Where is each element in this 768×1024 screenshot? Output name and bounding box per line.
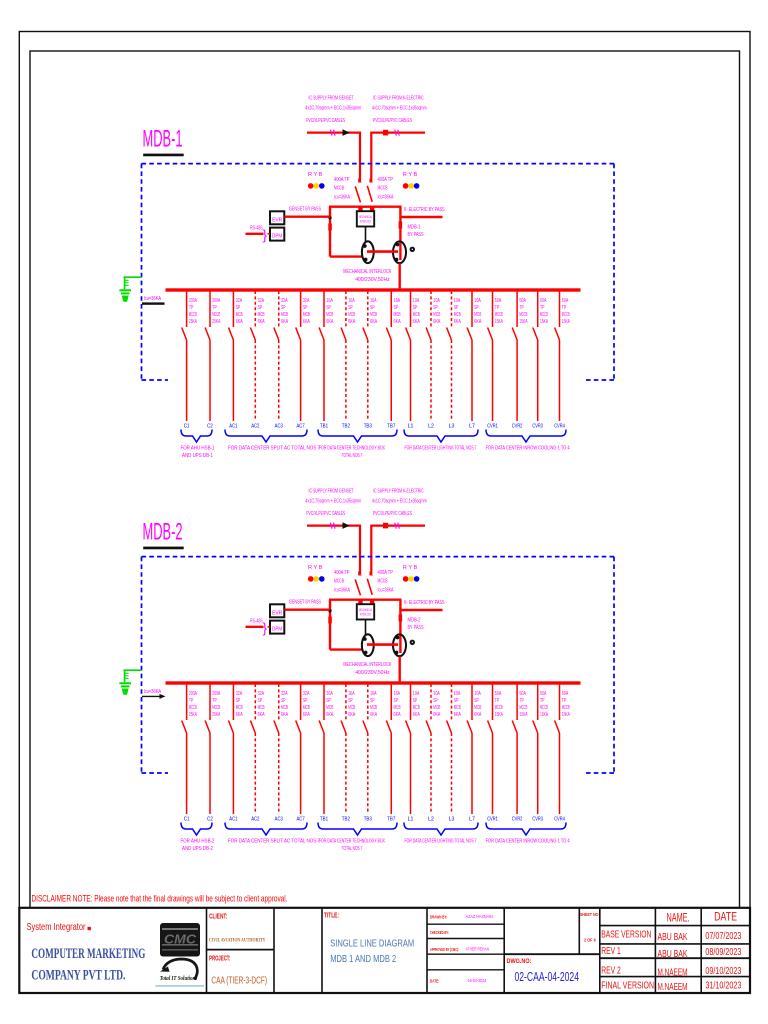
dashed panel enclosure MDB-2: [142, 557, 615, 773]
svg-text:MCB: MCB: [348, 312, 355, 318]
svg-text:AC1: AC1: [229, 817, 237, 823]
svg-text:FOR DATA CENTER LIGHTING TOTAL: FOR DATA CENTER LIGHTING TOTAL NOS 7: [405, 446, 477, 452]
feeder breaker AC3 32A SP MCB 6KA MDB-2: [274, 684, 279, 814]
feeder breaker CVR1 50A TP MCCB 15KA MDB-1: [488, 291, 493, 421]
svg-text:}: }: [263, 621, 268, 636]
label MECHANICAL INTERLOCK MDB-1: [343, 269, 391, 283]
svg-text:200A: 200A: [189, 298, 197, 304]
svg-text:6KA: 6KA: [281, 319, 288, 325]
svg-text:6KA: 6KA: [394, 712, 401, 718]
node circuit tag C1 MDB-1: [184, 424, 190, 430]
label feeder group 2 MDB-2: [228, 839, 320, 845]
feeder rating label CVR1 MDB-2: [495, 691, 503, 718]
title block outer box: [19, 908, 750, 993]
svg-text:BY PASS: BY PASS: [408, 625, 424, 631]
red square marker k-electric MDB-1: [383, 130, 388, 136]
svg-text:PROJECT:: PROJECT:: [209, 955, 230, 962]
wire interlock to ATS MDB-2: [365, 620, 367, 635]
svg-text:TITLE:: TITLE:: [324, 913, 339, 920]
ground earth electrode MDB-1: [119, 277, 141, 302]
indicator lamps R Y B genset side MDB-2: [308, 565, 325, 582]
svg-text:15KA: 15KA: [495, 712, 503, 718]
client/project cell divider: [207, 949, 275, 951]
svg-text:MCCB: MCCB: [495, 312, 503, 318]
label MDB-1 BY PASS: [408, 224, 424, 238]
breaker label 400A TP MCCB k-electric incomer MDB-2: [378, 570, 394, 594]
svg-text:L1: L1: [408, 424, 414, 430]
feeder breaker TB2 16A SP MCB 6KA MDB-1: [341, 291, 346, 421]
node circuit tag TB1 MDB-1: [320, 424, 328, 430]
svg-text:INTERLOCK: INTERLOCK: [360, 613, 372, 617]
feeder breaker AC1 32A SP MCB 6KA MDB-2: [229, 684, 234, 814]
junction dot genset bypass MDB-1: [328, 216, 331, 219]
group brace 5 MDB-2: [486, 823, 566, 836]
svg-text:Icu=36KA: Icu=36KA: [378, 588, 394, 594]
svg-text:07/07/2023: 07/07/2023: [705, 931, 741, 942]
svg-text:AND UPS DB-2: AND UPS DB-2: [182, 846, 213, 852]
wire interlock to ATS MDB-1: [365, 227, 367, 242]
svg-text:AC7: AC7: [297, 424, 305, 430]
wire ATS to busbar MDB-2: [399, 656, 401, 681]
svg-text:08/09/2023: 08/09/2023: [705, 947, 741, 958]
svg-text:TP: TP: [519, 305, 524, 311]
node circuit tag L3 MDB-1: [449, 424, 455, 430]
svg-text:6KA: 6KA: [474, 712, 481, 718]
label MDB-2 title: [143, 519, 183, 546]
svg-text:MCCB: MCCB: [334, 579, 344, 585]
feeder breaker L3 10A SP MCB 6KA MDB-1: [447, 291, 452, 421]
svg-text:400A TP: 400A TP: [334, 570, 350, 576]
svg-text:FOR DATA CENTER INROW COOLING: FOR DATA CENTER INROW COOLING 1 TO 4: [486, 446, 570, 452]
feeder breaker L7 10A SP MCB 6KA MDB-1: [467, 291, 472, 421]
feeder rating label TB1 MDB-2: [326, 691, 333, 718]
svg-text:TP: TP: [189, 698, 194, 704]
svg-text:25KA: 25KA: [189, 319, 197, 325]
svg-text:Icu=36KA: Icu=36KA: [378, 195, 394, 201]
svg-text:MCB: MCB: [303, 312, 310, 318]
breaker blade k-electric incomer MDB-1: [367, 178, 373, 202]
group brace 1 MDB-2: [181, 823, 212, 836]
svg-text:AND UPS DB-1: AND UPS DB-1: [182, 453, 213, 459]
wire bypass loop left drop MDB-1: [330, 207, 363, 257]
wire RS-485 to DPM MDB-1: [246, 233, 271, 235]
svg-text:IC SUPPLY FROM GENSET: IC SUPPLY FROM GENSET: [309, 489, 354, 495]
svg-text:50A: 50A: [562, 298, 569, 304]
black direction arrow genset MDB-1: [343, 129, 350, 136]
svg-text:32A: 32A: [258, 298, 265, 304]
label DWG.NO 02-CAA-04-2024: [507, 958, 580, 984]
svg-text:MCB: MCB: [258, 312, 265, 318]
ATS motor dot MDB-1: [410, 247, 415, 252]
svg-text:TB2: TB2: [342, 817, 350, 823]
svg-text:MCB: MCB: [348, 705, 355, 711]
svg-text:02-CAA-04-2024: 02-CAA-04-2024: [515, 970, 580, 984]
svg-text:TP: TP: [562, 305, 567, 311]
svg-text:50A: 50A: [495, 298, 502, 304]
breaker label 400A TP MCCB k-electric incomer MDB-1: [378, 177, 394, 201]
svg-text:L2: L2: [428, 817, 434, 823]
node circuit tag TB2 MDB-1: [342, 424, 350, 430]
node circuit tag CVR1 MDB-2: [487, 817, 498, 823]
svg-text:PVC/XLPE/PVC CABLES: PVC/XLPE/PVC CABLES: [373, 118, 412, 124]
svg-text:IC SUPPLY FROM GENSET: IC SUPPLY FROM GENSET: [309, 96, 354, 102]
svg-text:MDB-1: MDB-1: [408, 224, 421, 230]
svg-text:L7: L7: [469, 817, 475, 823]
ATS changeover switch genset MDB-2: [362, 634, 374, 656]
label DATE cell: [430, 978, 487, 984]
label RS-485 MDB-2: [250, 619, 263, 625]
node circuit tag AC7 MDB-1: [297, 424, 305, 430]
feeder breaker AC1 32A SP MCB 6KA MDB-1: [229, 291, 234, 421]
label MDB-2 BY PASS: [408, 617, 424, 631]
svg-text:15KA: 15KA: [519, 712, 527, 718]
revision row BASE VERSION: [601, 930, 741, 944]
wire bypass loop top MDB-1: [329, 205, 402, 207]
label feeder group 5 MDB-2: [486, 839, 570, 845]
svg-text:SP: SP: [413, 305, 418, 311]
svg-text:6KA: 6KA: [236, 712, 243, 718]
svg-text:SP: SP: [348, 305, 353, 311]
svg-text:6KA: 6KA: [348, 319, 355, 325]
svg-text:6KA: 6KA: [258, 319, 265, 325]
node circuit tag CVR3 MDB-2: [532, 817, 543, 823]
svg-text:400/230V,50Hz: 400/230V,50Hz: [355, 670, 390, 676]
label System Integrator: [27, 921, 91, 933]
wire bypass loop right drop MDB-2: [399, 600, 401, 653]
feeder breaker TB3 16A SP MCB 6KA MDB-2: [363, 684, 368, 814]
svg-text:PVC/XLPE/PVC CABLES: PVC/XLPE/PVC CABLES: [306, 511, 345, 517]
node square right bypass MDB-2: [399, 615, 403, 622]
group brace 3 MDB-2: [318, 823, 397, 836]
svg-text:Icu=36KA: Icu=36KA: [144, 296, 162, 302]
svg-text:SP: SP: [433, 698, 438, 704]
svg-text:FOR AHU HSB-1: FOR AHU HSB-1: [181, 446, 215, 452]
feeder breaker L3 10A SP MCB 6KA MDB-2: [447, 684, 452, 814]
feeder breaker CVR4 50A TP MCCB 15KA MDB-1: [555, 291, 560, 421]
svg-text:CAA (TIER-3-DCF): CAA (TIER-3-DCF): [211, 975, 267, 987]
wire genset supply feed MDB-2: [307, 526, 361, 574]
svg-text:FOR DATA CENTER SPLIT AC TOTAL: FOR DATA CENTER SPLIT AC TOTAL NOS 7: [228, 446, 320, 452]
svg-text:16A: 16A: [394, 298, 401, 304]
svg-text:System Integrator: System Integrator: [27, 921, 86, 933]
svg-text:25KA: 25KA: [212, 712, 220, 718]
svg-text:MCB: MCB: [394, 312, 401, 318]
svg-text:32A: 32A: [303, 691, 310, 697]
svg-text:MCB: MCB: [236, 705, 243, 711]
svg-text:AC2: AC2: [251, 424, 259, 430]
svg-text:MCCB: MCCB: [519, 705, 527, 711]
node circuit tag C2 MDB-2: [207, 817, 213, 823]
svg-text:}: }: [263, 228, 268, 243]
revision row REV 2: [601, 965, 741, 978]
cable marker ticks genset MDB-1: [331, 130, 336, 136]
svg-text:MCB: MCB: [413, 312, 420, 318]
svg-text:16A: 16A: [394, 691, 401, 697]
node circuit tag TB3 MDB-1: [364, 424, 372, 430]
svg-text:32A: 32A: [281, 298, 288, 304]
logo swoosh Total IT Solutions: [156, 959, 205, 987]
feeder rating label L1 MDB-2: [413, 691, 420, 718]
title block column lines: [207, 908, 600, 993]
ground earth electrode MDB-2: [119, 670, 141, 695]
svg-text:50A: 50A: [562, 691, 569, 697]
svg-text:SP: SP: [236, 305, 241, 311]
svg-text:AC2: AC2: [251, 817, 259, 823]
svg-text:6KA: 6KA: [281, 712, 288, 718]
svg-text:6KA: 6KA: [433, 319, 440, 325]
svg-text:6KA: 6KA: [433, 712, 440, 718]
svg-text:6KA: 6KA: [258, 712, 265, 718]
svg-text:10A: 10A: [474, 298, 481, 304]
indicator lamps R Y B k-electric side MDB-1: [403, 172, 420, 189]
cable marker ticks k-electric MDB-2: [395, 523, 400, 529]
svg-text:CVR1: CVR1: [487, 817, 498, 823]
svg-text:IC SUPPLY FROM K-ELECTRIC: IC SUPPLY FROM K-ELECTRIC: [373, 489, 424, 495]
svg-text:MCB: MCB: [326, 705, 333, 711]
svg-text:MCB: MCB: [370, 312, 377, 318]
svg-text:DATE:: DATE:: [430, 979, 440, 985]
contact square left incomer MDB-1: [358, 206, 362, 212]
wire between ATS switches MDB-2: [367, 643, 398, 646]
svg-text:ABU BAK: ABU BAK: [658, 949, 688, 960]
node: k-electric incoming supply label MDB-2: [372, 489, 427, 518]
svg-text:CLIENT:: CLIENT:: [209, 914, 227, 921]
svg-text:MCB: MCB: [326, 312, 333, 318]
node circuit tag CVR1 MDB-1: [487, 424, 498, 430]
svg-text:15KA: 15KA: [519, 319, 527, 325]
svg-text:16A: 16A: [370, 691, 377, 697]
label feeder group 1 MDB-1: [181, 446, 215, 459]
svg-text:MCB: MCB: [474, 312, 481, 318]
svg-text:SP: SP: [258, 305, 263, 311]
svg-text:25KA: 25KA: [212, 319, 220, 325]
svg-text:6KA: 6KA: [454, 319, 461, 325]
breaker blade genset incomer MDB-1: [355, 178, 362, 202]
mechanical interlock controller box MDB-1: [357, 211, 374, 226]
node circuit tag AC3 MDB-1: [275, 424, 283, 430]
node circuit tag TB7 MDB-2: [387, 817, 395, 823]
svg-text:MCCB: MCCB: [519, 312, 527, 318]
feeder breaker TB1 16A SP MCB 6KA MDB-1: [319, 291, 324, 421]
svg-text:16A: 16A: [326, 691, 333, 697]
contact square right incomer MDB-1: [370, 206, 374, 212]
svg-text:C2: C2: [207, 817, 213, 823]
wire k-electric bypass out MDB-2: [400, 609, 442, 611]
svg-text:10A: 10A: [454, 298, 461, 304]
svg-text:MCB: MCB: [433, 312, 440, 318]
feeder rating label AC3 MDB-1: [281, 298, 288, 325]
svg-text:L3: L3: [449, 817, 455, 823]
logo CMC block: [160, 923, 200, 957]
node circuit tag AC2 MDB-1: [251, 424, 259, 430]
feeder rating label L3 MDB-1: [454, 298, 461, 325]
node circuit tag AC7 MDB-2: [297, 817, 305, 823]
svg-text:6KA: 6KA: [474, 319, 481, 325]
feeder rating label AC3 MDB-2: [281, 691, 288, 718]
cable marker ticks genset MDB-2: [331, 523, 336, 529]
svg-text:M.NAEEM: M.NAEEM: [658, 982, 688, 993]
svg-text:6KA: 6KA: [326, 712, 333, 718]
svg-text:4x1C,70sqmm + ECC,1x35sqmm: 4x1C,70sqmm + ECC,1x35sqmm: [372, 499, 427, 505]
svg-text:SP: SP: [236, 698, 241, 704]
svg-text:MCB: MCB: [258, 705, 265, 711]
label feeder group 3 MDB-1: [319, 446, 385, 459]
svg-text:10A: 10A: [433, 298, 440, 304]
svg-text:MECHANICAL: MECHANICAL: [359, 215, 372, 219]
node circuit tag TB1 MDB-2: [320, 817, 328, 823]
node circuit tag AC1 MDB-2: [229, 817, 237, 823]
svg-text:L3: L3: [449, 424, 455, 430]
node circuit tag L7 MDB-2: [469, 817, 475, 823]
svg-text:4x1C,70sqmm + ECC,1x35sqmm: 4x1C,70sqmm + ECC,1x35sqmm: [305, 499, 361, 505]
svg-text:SP: SP: [326, 698, 331, 704]
svg-text:SP: SP: [258, 698, 263, 704]
ATS changeover switch genset MDB-1: [362, 241, 374, 263]
node circuit tag C2 MDB-1: [207, 424, 213, 430]
node circuit tag C1 MDB-2: [184, 817, 190, 823]
svg-text:15KA: 15KA: [495, 319, 503, 325]
svg-text:400A TP: 400A TP: [378, 177, 394, 183]
label CHECKED BY: [430, 930, 449, 936]
svg-text:DWG.NO:: DWG.NO:: [507, 958, 532, 965]
svg-text:BASE VERSION: BASE VERSION: [601, 930, 651, 941]
svg-text:31/10/2023: 31/10/2023: [705, 980, 741, 991]
svg-text:16A: 16A: [326, 298, 333, 304]
svg-text:CVR1: CVR1: [487, 424, 498, 430]
svg-text:FINAL VERSION: FINAL VERSION: [601, 981, 654, 992]
cable marker ticks k-electric MDB-1: [395, 130, 400, 136]
label feeder group 3 MDB-2: [319, 839, 385, 852]
label feeder group 2 MDB-1: [228, 446, 320, 452]
svg-text:MDB 1 AND MDB 2: MDB 1 AND MDB 2: [330, 954, 396, 965]
label feeder group 4 MDB-2: [405, 839, 477, 845]
svg-text:MCB: MCB: [474, 705, 481, 711]
relay EVR MDB-2: [270, 604, 284, 617]
label CLIENT: [209, 914, 227, 921]
feeder rating label AC7 MDB-2: [303, 691, 310, 718]
svg-text:16A: 16A: [370, 298, 377, 304]
svg-text:MCB: MCB: [303, 705, 310, 711]
svg-text:50A: 50A: [540, 298, 547, 304]
indicator lamps R Y B k-electric side MDB-2: [403, 565, 420, 582]
svg-text:MCB: MCB: [370, 705, 377, 711]
svg-text:200A: 200A: [212, 298, 220, 304]
node circuit tag CVR2 MDB-2: [512, 817, 523, 823]
disclaimer note bar: [32, 894, 288, 904]
svg-text:CVR4: CVR4: [554, 817, 565, 823]
node circuit tag TB7 MDB-1: [387, 424, 395, 430]
wire RS-485 to DPM MDB-2: [246, 626, 271, 628]
svg-text:RS-485: RS-485: [250, 226, 263, 232]
svg-text:10A: 10A: [413, 691, 420, 697]
svg-text:FOR DATA CENTER TECHNOLOGY BOX: FOR DATA CENTER TECHNOLOGY BOX: [319, 446, 385, 452]
svg-text:L1: L1: [408, 817, 414, 823]
wire genset supply feed MDB-1: [307, 133, 361, 181]
svg-text:6KA: 6KA: [454, 712, 461, 718]
label DRAWN BY: [430, 914, 493, 920]
feeder rating label AC7 MDB-1: [303, 298, 310, 325]
svg-text:PVC/XLPE/PVC CABLES: PVC/XLPE/PVC CABLES: [306, 118, 345, 124]
group brace 2 MDB-2: [225, 823, 307, 836]
wire EVR to bypass loop MDB-2: [284, 609, 330, 611]
svg-text:Icu=36KA: Icu=36KA: [334, 588, 350, 594]
node square left bypass MDB-1: [328, 224, 332, 231]
label MECHANICAL INTERLOCK MDB-2: [343, 662, 391, 676]
feeder rating label CVR4 MDB-2: [562, 691, 570, 718]
svg-text:CVR4: CVR4: [554, 424, 565, 430]
feeder breaker CVR4 50A TP MCCB 15KA MDB-2: [555, 684, 560, 814]
red square marker k-electric MDB-2: [383, 523, 388, 529]
feeder breaker TB3 16A SP MCB 6KA MDB-1: [363, 291, 368, 421]
feeder breaker CVR3 50A TP MCCB 15KA MDB-1: [533, 291, 538, 421]
svg-text:50A: 50A: [519, 298, 526, 304]
svg-text:25KA: 25KA: [189, 712, 197, 718]
svg-text:R Y B: R Y B: [308, 565, 323, 571]
svg-text:CVR3: CVR3: [532, 817, 543, 823]
label K-ELECTRIC BY PASS MDB-1: [404, 207, 445, 213]
feeder breaker TB1 16A SP MCB 6KA MDB-2: [319, 684, 324, 814]
svg-text:REV 2: REV 2: [601, 965, 621, 976]
svg-text:L7: L7: [469, 424, 475, 430]
svg-text:SP: SP: [303, 305, 308, 311]
node circuit tag CVR4 MDB-1: [554, 424, 565, 430]
label PROJECT: [209, 955, 230, 962]
node circuit tag CVR2 MDB-1: [512, 424, 523, 430]
feeder breaker AC3 32A SP MCB 6KA MDB-1: [274, 291, 279, 421]
svg-text:16A: 16A: [348, 691, 355, 697]
mechanical interlock controller box MDB-2: [357, 604, 374, 619]
svg-text:Icu=36KA: Icu=36KA: [334, 195, 350, 201]
svg-text:MCCB: MCCB: [495, 705, 503, 711]
svg-text:MCCB: MCCB: [378, 186, 388, 192]
svg-text:6KA: 6KA: [413, 712, 420, 718]
svg-text:MCCB: MCCB: [212, 705, 220, 711]
meter DPM MDB-2: [270, 621, 284, 634]
feeder breaker TB7 16A SP MCB 6KA MDB-1: [386, 291, 391, 421]
feeder rating label CVR1 MDB-1: [495, 298, 503, 325]
svg-text:MDB-2: MDB-2: [143, 519, 183, 546]
svg-text:MCCB: MCCB: [562, 705, 570, 711]
label feeder group 5 MDB-1: [486, 446, 570, 452]
svg-text:200A: 200A: [212, 691, 220, 697]
node circuit tag L3 MDB-2: [449, 817, 455, 823]
svg-text:400A TP: 400A TP: [378, 570, 394, 576]
feeder rating label AC2 MDB-2: [258, 691, 265, 718]
feeder rating label CVR2 MDB-1: [519, 298, 527, 325]
svg-text:MCB: MCB: [394, 705, 401, 711]
group brace 2 MDB-1: [225, 430, 307, 443]
feeder breaker C2 200A TP MCCB 25KA MDB-1: [205, 291, 210, 421]
inner border frame: [30, 51, 740, 908]
svg-text:50A: 50A: [540, 691, 547, 697]
svg-text:MECHANICAL: MECHANICAL: [359, 608, 372, 612]
feeder rating label TB7 MDB-2: [394, 691, 401, 718]
breaker blade k-electric incomer MDB-2: [367, 571, 373, 595]
feeder breaker L1 10A SP MCB 6KA MDB-1: [406, 291, 411, 421]
svg-text:SP: SP: [474, 698, 479, 704]
breaker label 400A TP MCCB genset incomer MDB-2: [334, 570, 350, 594]
brace mark RS-485 MDB-2: [263, 621, 268, 636]
svg-text:15KA: 15KA: [562, 319, 570, 325]
node square left bypass MDB-2: [328, 617, 332, 624]
feeder rating label TB7 MDB-1: [394, 298, 401, 325]
svg-text:6KA: 6KA: [326, 319, 333, 325]
node circuit tag AC3 MDB-2: [275, 817, 283, 823]
svg-text:RS-485: RS-485: [250, 619, 263, 625]
svg-text:MCB: MCB: [236, 312, 243, 318]
revision table header NAME DATE: [667, 911, 738, 924]
label CAA TIER-3-DCF: [211, 975, 267, 987]
